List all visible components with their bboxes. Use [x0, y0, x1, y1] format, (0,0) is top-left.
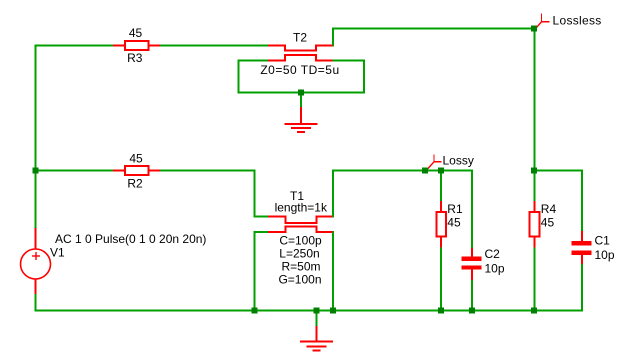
- junction T1 bottom-right on bottom rail: [330, 308, 336, 314]
- label R1: [447, 202, 463, 216]
- resistor R4: [530, 201, 540, 248]
- svg-text:R=50m: R=50m: [281, 260, 320, 274]
- transmission line T1: [268, 217, 333, 233]
- label V1 value AC 1 0 Pulse(0 1 0 20n 20n): [55, 232, 206, 246]
- wire T1 bottom-left vertical down: [254, 231, 256, 312]
- label R2: [127, 177, 143, 191]
- wire T2 ground loop left vertical: [238, 60, 240, 94]
- label R3: [127, 51, 143, 65]
- svg-text:length=1k: length=1k: [275, 201, 328, 215]
- svg-text:C1: C1: [595, 234, 611, 248]
- svg-text:Lossy: Lossy: [443, 154, 474, 168]
- svg-text:R4: R4: [541, 202, 557, 216]
- junction Lossy flag node: [422, 168, 428, 174]
- svg-text:45: 45: [129, 26, 143, 40]
- wire T2 ground stub green: [300, 93, 302, 109]
- svg-text:45: 45: [447, 215, 461, 229]
- wire top-right horizontal to Lossless node: [332, 28, 535, 30]
- label C2 value 10p: [485, 262, 505, 276]
- label T2: [293, 31, 307, 45]
- ground below T2: [285, 107, 318, 132]
- wire C1 branch vertical upper: [581, 170, 583, 233]
- wire T1 top-right vertical up: [332, 170, 334, 218]
- wire T1 bottom-left horizontal stub: [254, 231, 269, 233]
- label Lossless: [553, 14, 602, 28]
- label R4 value 45: [541, 215, 555, 229]
- svg-text:45: 45: [541, 215, 555, 229]
- label T1 length=1k: [275, 201, 328, 215]
- svg-text:AC 1 0 Pulse(0 1 0 20n 20n): AC 1 0 Pulse(0 1 0 20n 20n): [55, 232, 206, 246]
- wire Lossless node to C1 branch: [533, 170, 583, 172]
- svg-text:Z0=50 TD=5u: Z0=50 TD=5u: [260, 63, 339, 77]
- junction Lossless node: [531, 26, 537, 32]
- wire T1 top-left horizontal stub: [254, 216, 269, 218]
- wire T1 top-left vertical down: [254, 170, 256, 218]
- svg-text:C2: C2: [485, 247, 501, 261]
- wire T2 ground loop bottom horizontal: [238, 92, 366, 94]
- wire right rail below R4: [534, 247, 536, 312]
- junction R4 bottom on bottom rail: [531, 308, 537, 314]
- label R2 value 45: [129, 152, 143, 166]
- junction C2 bottom on bottom rail: [469, 308, 475, 314]
- label T1 L=250n: [279, 247, 319, 261]
- voltage source V1: [21, 228, 51, 294]
- svg-text:T2: T2: [293, 31, 307, 45]
- label T1: [290, 189, 304, 203]
- wire middle horizontal R2 to T1 corner: [159, 170, 256, 172]
- wire T2 ground loop right stub: [332, 60, 365, 62]
- label T2 value Z0=50 TD=5u: [260, 63, 339, 77]
- label T1 R=50m: [281, 260, 320, 274]
- wire T2 ground loop right vertical: [363, 60, 365, 94]
- capacitor C2: [462, 248, 482, 280]
- svg-text:C=100p: C=100p: [279, 234, 322, 248]
- svg-text:R1: R1: [447, 202, 463, 216]
- label R1 value 45: [447, 215, 461, 229]
- junction T2 ground loop: [298, 90, 304, 96]
- ground at bottom center: [300, 326, 333, 351]
- label Lossy: [443, 154, 474, 168]
- svg-text:R2: R2: [127, 177, 143, 191]
- label R3 value 45: [129, 26, 143, 40]
- wire R1 branch vertical lower: [440, 247, 442, 312]
- label R4: [541, 202, 557, 216]
- wire C2 branch vertical upper: [471, 170, 473, 250]
- wire left rail lower segment: [35, 294, 37, 312]
- wire C2 branch vertical lower: [471, 280, 473, 312]
- wire left rail upper segment: [35, 45, 37, 229]
- node Lossless flag: [536, 14, 550, 29]
- svg-text:10p: 10p: [485, 262, 505, 276]
- label C1: [595, 234, 611, 248]
- resistor R3: [113, 41, 160, 50]
- svg-text:V1: V1: [50, 246, 65, 260]
- wire bottom ground stub green: [316, 311, 318, 328]
- wire bottom rail: [35, 310, 584, 312]
- wire middle horizontal left of R2: [35, 170, 114, 172]
- svg-text:R3: R3: [127, 51, 143, 65]
- svg-text:G=100n: G=100n: [278, 273, 321, 287]
- node Lossy flag: [428, 155, 442, 170]
- wire right rail Lossless to R4: [534, 29, 536, 202]
- svg-text:Lossless: Lossless: [553, 14, 602, 28]
- svg-text:L=250n: L=250n: [279, 247, 319, 261]
- wire top horizontal to T2: [35, 45, 269, 47]
- label V1: [50, 246, 65, 260]
- wire T1 bottom-right vertical down: [332, 231, 334, 312]
- junction T1 bottom-left on bottom rail: [252, 308, 258, 314]
- transmission line T2: [268, 46, 333, 61]
- wire R1 branch vertical upper: [440, 170, 442, 202]
- label C1 value 10p: [595, 248, 615, 262]
- wire T2 ground loop left stub: [238, 60, 269, 62]
- junction left rail / middle wire: [33, 168, 39, 174]
- wire T2 top-right vertical up: [332, 28, 334, 47]
- resistor R2: [113, 166, 160, 175]
- svg-text:10p: 10p: [595, 248, 615, 262]
- junction ground on bottom rail: [314, 308, 320, 314]
- junction right rail / C1 wire: [531, 168, 537, 174]
- junction R1 top node: [438, 168, 444, 174]
- resistor R1: [437, 201, 447, 248]
- capacitor C1: [572, 231, 592, 264]
- label T1 C=100p: [279, 234, 322, 248]
- label C2: [485, 247, 501, 261]
- svg-text:45: 45: [129, 152, 143, 166]
- label T1 G=100n: [278, 273, 321, 287]
- junction R1 bottom on bottom rail: [438, 308, 444, 314]
- wire middle horizontal T1 to C2 branch: [332, 170, 473, 172]
- wire C1 branch vertical lower: [581, 263, 583, 312]
